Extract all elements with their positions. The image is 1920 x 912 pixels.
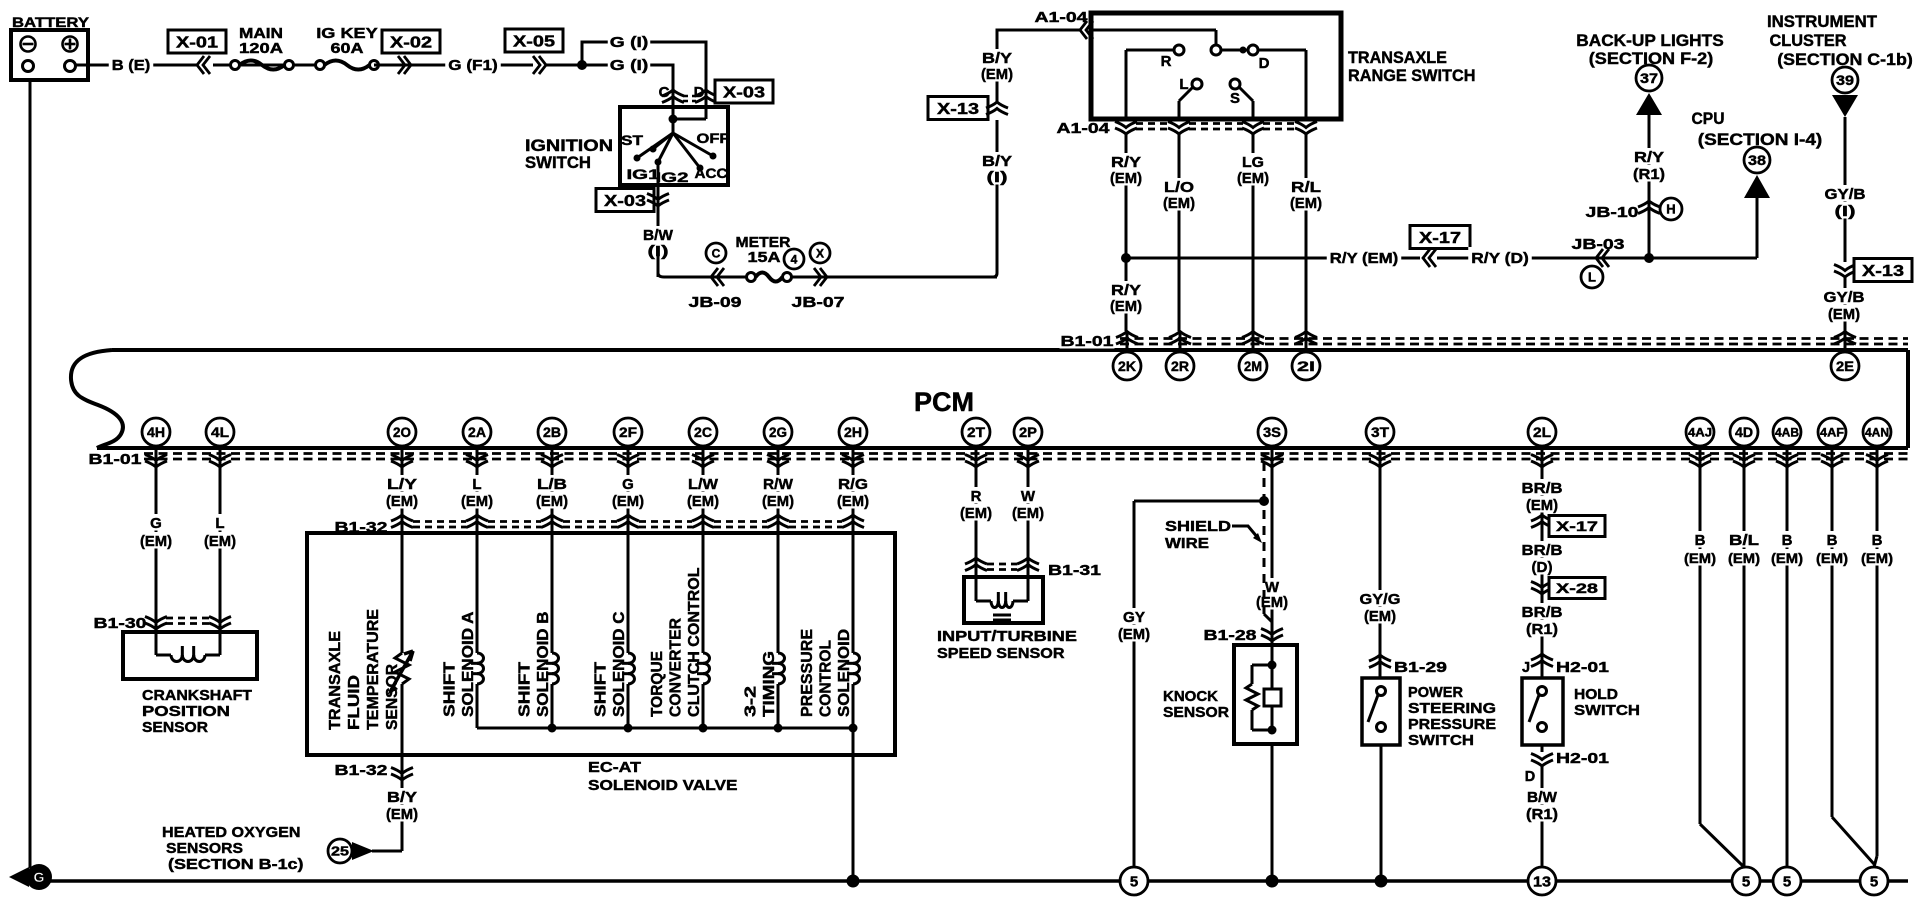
ground bus [45, 879, 1908, 883]
svg-text:B1-31: B1-31 [1048, 563, 1101, 579]
connector B1-30 [94, 616, 232, 632]
svg-text:(SECTION I-4): (SECTION I-4) [1698, 130, 1823, 149]
svg-text:(EM): (EM) [1290, 195, 1322, 212]
svg-text:CPU: CPU [1692, 109, 1725, 128]
svg-text:POSITION: POSITION [142, 703, 230, 720]
svg-text:SENSOR: SENSOR [1163, 704, 1229, 721]
svg-text:JB-09: JB-09 [689, 295, 742, 311]
svg-text:(EM): (EM) [837, 493, 869, 510]
svg-text:(I): (I) [1835, 203, 1856, 220]
svg-text:2O: 2O [393, 424, 411, 440]
svg-text:G (F1): G (F1) [448, 57, 498, 74]
PCM pin 2O [388, 418, 416, 474]
wire G (EM) PCM 4H to crankshaft sensor [139, 466, 173, 632]
svg-text:SENSOR: SENSOR [384, 664, 401, 730]
PCM pin 4H [142, 418, 170, 474]
PCM pin 2B [538, 418, 566, 474]
svg-text:4AF: 4AF [1820, 425, 1844, 439]
wire R/G (EM) to EC-AT [836, 466, 870, 533]
svg-text:2I: 2I [1297, 358, 1315, 374]
svg-text:X: X [816, 246, 824, 260]
svg-text:B1-30: B1-30 [94, 616, 147, 632]
wire B/Y (EM) to transaxle range switch connector A1-04 [980, 30, 1080, 102]
svg-text:B: B [1827, 532, 1838, 549]
svg-text:H2-01: H2-01 [1556, 751, 1609, 767]
svg-text:R/Y: R/Y [1111, 282, 1141, 299]
svg-text:BR/B: BR/B [1522, 604, 1563, 621]
svg-text:(R1): (R1) [1526, 621, 1558, 638]
svg-text:D: D [1525, 769, 1535, 785]
svg-text:(EM): (EM) [1816, 550, 1848, 566]
wire L/O (EM) from range switch L [1162, 134, 1196, 331]
PCM pin 4AB [1773, 418, 1801, 474]
svg-text:X-17: X-17 [1556, 518, 1598, 534]
PCM pin 2R [1166, 331, 1194, 380]
svg-text:SHIFT: SHIFT [442, 662, 459, 717]
junction JB-10 [1586, 198, 1683, 221]
wire R (EM) PCM 2T [959, 466, 993, 577]
wire GY/G (EM) PCM 3T [1359, 466, 1402, 678]
wire B/W (I) from ignition switch [642, 222, 674, 277]
svg-text:SHIFT: SHIFT [593, 662, 610, 717]
svg-text:B/Y: B/Y [982, 50, 1012, 67]
svg-text:(D): (D) [1532, 559, 1553, 576]
svg-text:(R1): (R1) [1633, 166, 1665, 183]
svg-text:OFF: OFF [697, 131, 730, 146]
wire R/L (EM) from range switch D [1289, 134, 1323, 331]
solenoid coil SHIFT SOLENOID B [517, 533, 559, 728]
wire L/W (EM) to EC-AT [686, 466, 720, 533]
ground G [9, 864, 52, 890]
PCM pin 4L [206, 418, 234, 474]
svg-text:(EM): (EM) [1771, 550, 1803, 566]
svg-text:PRESSURE: PRESSURE [1408, 716, 1496, 733]
svg-text:5: 5 [1870, 873, 1878, 890]
svg-text:37: 37 [1640, 70, 1658, 86]
svg-text:2L: 2L [1533, 424, 1551, 440]
svg-text:IG2: IG2 [656, 170, 689, 185]
svg-text:SHIELD: SHIELD [1165, 518, 1231, 535]
wire B (EM) PCM 4AN to ground 5 [1860, 466, 1894, 867]
back-up lights arrow and circle 37 [1576, 31, 1724, 115]
svg-text:G: G [622, 476, 634, 493]
svg-text:SOLENOID VALVE: SOLENOID VALVE [588, 777, 738, 794]
svg-text:G: G [34, 869, 45, 885]
wire B/W (R1) to ground 13 [1525, 766, 1559, 868]
svg-text:HOLD: HOLD [1574, 686, 1618, 703]
wire battery positive to X-01, label B (E) [76, 54, 197, 75]
svg-text:(EM): (EM) [1163, 195, 1195, 212]
PCM pin 4D [1730, 418, 1758, 474]
wire BR/B (EM) PCM 2L [1521, 466, 1564, 678]
PCM pin 2I [1292, 331, 1320, 380]
wire to meter fuse, junction JB-09 [658, 243, 747, 311]
PCM pin 3S [1258, 418, 1286, 474]
svg-text:SOLENOID C: SOLENOID C [611, 611, 628, 717]
svg-text:R/Y (D): R/Y (D) [1471, 250, 1529, 267]
svg-text:5: 5 [1130, 873, 1138, 890]
wire G (I) upper branch to ignition switch D [582, 32, 706, 107]
svg-text:2K: 2K [1118, 358, 1136, 374]
svg-text:CLUTCH CONTROL: CLUTCH CONTROL [686, 567, 703, 717]
wire BR/B (D) [1521, 541, 1564, 576]
connector X-28 [1531, 578, 1605, 599]
svg-text:SOLENOID B: SOLENOID B [535, 612, 552, 718]
solenoid coil TORQUE CLUTCH CONTROL [649, 533, 710, 728]
PCM pin 4AF [1818, 418, 1846, 474]
svg-text:2G: 2G [769, 424, 787, 440]
svg-text:(EM): (EM) [981, 66, 1013, 83]
svg-text:4AB: 4AB [1775, 425, 1799, 439]
svg-text:(SECTION F-2): (SECTION F-2) [1589, 49, 1714, 68]
svg-text:SOLENOID A: SOLENOID A [460, 611, 477, 717]
svg-text:METER: METER [736, 235, 792, 251]
svg-text:RANGE SWITCH: RANGE SWITCH [1348, 66, 1476, 85]
svg-text:R/G: R/G [838, 476, 868, 493]
svg-text:CRANKSHAFT: CRANKSHAFT [142, 687, 252, 704]
wire BR/B (R1) [1521, 603, 1564, 638]
svg-text:GY/B: GY/B [1825, 186, 1866, 203]
connector X-13 right [1834, 259, 1912, 282]
svg-text:JB-10: JB-10 [1586, 205, 1639, 221]
svg-text:SENSORS: SENSORS [166, 840, 243, 857]
svg-text:BATTERY: BATTERY [12, 14, 90, 30]
PCM pin 2C [689, 418, 717, 474]
svg-text:B/L: B/L [1729, 532, 1759, 549]
svg-text:13: 13 [1533, 873, 1551, 890]
svg-text:25: 25 [331, 844, 349, 859]
svg-text:L: L [215, 515, 224, 532]
svg-text:2P: 2P [1019, 424, 1037, 440]
svg-text:B1-01: B1-01 [1061, 334, 1114, 350]
solenoid coil PRESSURE SOLENOID [799, 533, 860, 728]
svg-text:X-13: X-13 [937, 101, 979, 118]
svg-text:L: L [1588, 270, 1596, 285]
svg-text:(EM): (EM) [1118, 626, 1150, 643]
solenoid coil SHIFT SOLENOID C [593, 533, 635, 728]
svg-text:(EM): (EM) [1256, 594, 1288, 611]
ground circle 5 (GY) [1120, 867, 1148, 895]
wire R/W (EM) to EC-AT [761, 466, 795, 533]
shield wire callout [1165, 518, 1262, 552]
wire L (EM) to EC-AT [460, 466, 494, 533]
svg-text:2E: 2E [1836, 358, 1854, 374]
shield drain wire GY (EM) to ground [1117, 496, 1269, 881]
wire L/B (EM) to EC-AT [535, 466, 569, 533]
fuse IG KEY 60A [316, 26, 379, 70]
svg-text:B/Y: B/Y [982, 153, 1012, 170]
wire L/Y (EM) to EC-AT [385, 466, 419, 533]
connector X-17 on R/Y wire [1410, 226, 1470, 268]
svg-text:(EM): (EM) [536, 493, 568, 510]
svg-text:PRESSURE: PRESSURE [799, 629, 816, 717]
svg-text:2F: 2F [619, 424, 637, 440]
PCM pin 2P [1014, 418, 1042, 474]
svg-text:X-01: X-01 [176, 34, 218, 51]
svg-text:KNOCK: KNOCK [1163, 688, 1218, 705]
svg-text:5: 5 [1742, 873, 1750, 890]
svg-text:A1-04: A1-04 [1057, 121, 1110, 137]
connector B1-28 [1204, 628, 1284, 644]
svg-text:B/W: B/W [643, 227, 674, 244]
svg-text:A1-04: A1-04 [1035, 10, 1088, 26]
PCM pin 2L [1528, 418, 1556, 474]
svg-text:X-28: X-28 [1556, 580, 1598, 596]
heated oxygen sensors circle 25 and arrow [162, 824, 374, 873]
svg-text:JB-03: JB-03 [1572, 237, 1625, 253]
svg-text:EC-AT: EC-AT [588, 759, 641, 776]
svg-text:X-17: X-17 [1419, 230, 1461, 247]
svg-text:(EM): (EM) [1861, 550, 1893, 566]
PCM pin 2H [839, 418, 867, 474]
knock sensor wire to ground bus [1266, 744, 1279, 888]
svg-text:WIRE: WIRE [1165, 535, 1209, 552]
svg-text:J: J [1522, 660, 1530, 676]
lower R/Y (EM) label on wire to PCM 2K [1109, 281, 1143, 315]
svg-text:CONVERTER: CONVERTER [668, 618, 685, 717]
svg-text:SENSOR: SENSOR [142, 719, 208, 736]
connector X-02 [374, 30, 444, 74]
PCM box [71, 350, 1908, 448]
svg-text:B: B [1695, 532, 1706, 549]
svg-text:D: D [1259, 55, 1270, 72]
fuse METER 15A [736, 235, 831, 282]
hold switch [1522, 678, 1640, 745]
svg-text:X-02: X-02 [390, 34, 432, 51]
wire GY/B (I) down to X-13 [1824, 117, 1867, 262]
svg-text:B: B [1872, 532, 1883, 549]
wire G (F1) [444, 54, 533, 75]
svg-text:C: C [712, 246, 721, 260]
svg-text:R/Y: R/Y [1634, 149, 1664, 166]
svg-text:L: L [472, 476, 481, 493]
svg-text:(EM): (EM) [1828, 306, 1860, 323]
svg-text:GY/B: GY/B [1824, 289, 1865, 306]
connector X-05 [505, 29, 563, 74]
svg-text:(EM): (EM) [612, 493, 644, 510]
wire to junction, node split G (I) [546, 60, 587, 70]
svg-text:4H: 4H [147, 424, 165, 440]
connector B1-01 bottom row [89, 452, 1909, 468]
svg-text:R/L: R/L [1291, 179, 1321, 196]
svg-text:B1-29: B1-29 [1394, 660, 1447, 676]
svg-text:S: S [1230, 90, 1240, 107]
svg-text:STEERING: STEERING [1408, 700, 1496, 717]
wire GY/B (EM) to PCM 2E [1823, 277, 1866, 331]
knock sensor [1163, 645, 1297, 744]
svg-text:HEATED OXYGEN: HEATED OXYGEN [162, 824, 301, 841]
svg-text:3-2: 3-2 [743, 686, 760, 717]
ground circle 13 [1528, 867, 1556, 895]
svg-text:LG: LG [1242, 154, 1264, 171]
wire B/Y (EM) to heated oxygen sensors [372, 755, 419, 851]
wire B/L (EM) PCM 4D to ground 5 [1727, 466, 1761, 869]
svg-text:(I): (I) [987, 169, 1008, 186]
svg-text:FLUID: FLUID [346, 675, 363, 730]
svg-text:INSTRUMENT: INSTRUMENT [1767, 12, 1878, 31]
svg-text:INPUT/TURBINE: INPUT/TURBINE [937, 628, 1077, 645]
svg-text:BACK-UP LIGHTS: BACK-UP LIGHTS [1576, 31, 1724, 50]
battery [11, 14, 90, 80]
svg-text:(EM): (EM) [687, 493, 719, 510]
wire R/Y (EM) from range switch R [1109, 134, 1143, 331]
svg-text:R/Y: R/Y [1111, 154, 1141, 171]
svg-text:(EM): (EM) [1110, 170, 1142, 187]
svg-text:4: 4 [791, 252, 798, 266]
svg-text:R: R [971, 488, 982, 505]
fuse MAIN 120A [213, 26, 320, 70]
svg-text:4AJ: 4AJ [1688, 425, 1712, 439]
svg-text:(EM): (EM) [960, 505, 992, 522]
shield wire (dashed) [1264, 462, 1272, 622]
power steering pressure switch [1362, 678, 1496, 749]
svg-text:2T: 2T [967, 424, 985, 440]
solenoid coil SHIFT SOLENOID A [442, 533, 484, 728]
svg-text:H2-01: H2-01 [1556, 660, 1609, 676]
wire R/Y (D) to junction JB-03 [1437, 237, 1649, 288]
svg-text:5: 5 [1783, 873, 1791, 890]
svg-text:X-03: X-03 [604, 193, 646, 210]
svg-text:(EM): (EM) [461, 493, 493, 510]
svg-text:IG KEY: IG KEY [316, 26, 378, 42]
svg-text:(SECTION B-1c): (SECTION B-1c) [168, 856, 304, 873]
svg-text:R/W: R/W [763, 476, 794, 493]
connector B1-29 [1369, 655, 1448, 676]
connector B1-32 top [334, 515, 865, 536]
wire R/Y (R1) rising to back-up lights [1632, 115, 1666, 263]
svg-text:(EM): (EM) [386, 493, 418, 510]
svg-text:GY: GY [1123, 609, 1145, 626]
svg-text:SWITCH: SWITCH [1408, 732, 1474, 749]
instrument cluster circle 39 and arrow [1767, 12, 1913, 117]
svg-text:TORQUE: TORQUE [649, 651, 666, 717]
svg-text:120A: 120A [239, 41, 284, 57]
wire R/G continuation to ground bus [847, 728, 860, 888]
svg-text:3T: 3T [1371, 424, 1389, 440]
svg-text:X-05: X-05 [513, 33, 555, 50]
svg-text:B1-28: B1-28 [1204, 628, 1257, 644]
wire G (EM) to EC-AT [611, 466, 645, 533]
svg-text:R: R [1161, 53, 1172, 70]
svg-text:(EM): (EM) [1237, 170, 1269, 187]
svg-text:ST: ST [621, 133, 644, 148]
connector X-17 on hold switch wire [1531, 515, 1605, 537]
svg-text:BR/B: BR/B [1522, 480, 1563, 497]
svg-text:POWER: POWER [1408, 684, 1463, 701]
svg-text:60A: 60A [331, 41, 365, 57]
svg-text:L: L [1179, 76, 1188, 93]
svg-text:L/O: L/O [1164, 179, 1194, 196]
svg-text:(EM): (EM) [1684, 550, 1716, 566]
PS switch wire to ground bus [1375, 745, 1388, 888]
svg-text:4L: 4L [211, 424, 229, 440]
ground circles 5 right [1732, 867, 1888, 895]
wire W (EM) PCM 2P [1011, 466, 1045, 577]
wire B/Y (I) rising to X-13 [981, 120, 1013, 277]
svg-text:3S: 3S [1263, 424, 1281, 440]
connector B1-31 [965, 558, 1101, 579]
svg-text:G (I): G (I) [610, 57, 649, 74]
svg-text:(R1): (R1) [1526, 806, 1558, 823]
wire B (EM) PCM 4AF to ground 5 [1815, 466, 1874, 864]
svg-text:38: 38 [1748, 152, 1766, 168]
connector B1-01 top row [1060, 332, 1909, 350]
svg-text:MAIN: MAIN [239, 26, 283, 42]
svg-text:2A: 2A [468, 424, 486, 440]
svg-text:GY/G: GY/G [1360, 591, 1401, 608]
connector X-03 top, pins C and D [659, 80, 773, 103]
svg-text:H: H [1666, 202, 1675, 217]
crankshaft position sensor [123, 632, 257, 736]
svg-text:L/B: L/B [537, 476, 567, 493]
svg-text:(EM): (EM) [204, 533, 236, 550]
svg-text:B1-01: B1-01 [89, 452, 142, 468]
connector B1-32 bottom [335, 763, 414, 780]
svg-text:2R: 2R [1171, 358, 1189, 374]
PCM pin 2T [962, 418, 990, 474]
svg-text:ACC: ACC [695, 166, 728, 181]
svg-text:TEMPERATURE: TEMPERATURE [365, 609, 382, 730]
connector A1-04 bottom [1057, 121, 1318, 137]
wire W (EM) PCM 3S with shield [1255, 466, 1289, 645]
svg-text:15A: 15A [748, 250, 782, 266]
connector X-01 [168, 30, 226, 74]
connector X-03 bottom [596, 185, 669, 222]
CPU arrow and circle 38 [1692, 109, 1823, 198]
wire B (EM) PCM 4AB to ground 5 [1770, 466, 1804, 869]
svg-text:X-13: X-13 [1862, 263, 1904, 280]
wire G (I) lower branch to ignition switch C [582, 55, 673, 107]
svg-text:B/W: B/W [1527, 789, 1558, 806]
EC-AT solenoid valve box [307, 533, 895, 794]
svg-text:(EM): (EM) [1110, 298, 1142, 315]
PCM pin 4AJ [1686, 418, 1714, 474]
svg-text:2C: 2C [694, 424, 712, 440]
battery negative wire to ground [29, 80, 32, 868]
svg-text:B (E): B (E) [112, 57, 151, 74]
svg-text:B/Y: B/Y [387, 789, 417, 806]
svg-text:(EM): (EM) [1012, 505, 1044, 522]
svg-text:2H: 2H [844, 424, 862, 440]
svg-text:(EM): (EM) [1364, 608, 1396, 625]
PCM pin 4AN [1863, 418, 1891, 474]
svg-text:CLUSTER: CLUSTER [1770, 31, 1847, 50]
svg-text:G: G [150, 515, 162, 532]
wire L (EM) PCM 4L to crankshaft sensor [203, 466, 237, 632]
PCM pin 3T [1366, 418, 1394, 474]
transaxle fluid temperature sensor (thermistor) [327, 533, 413, 755]
wire LG (EM) from range switch S [1236, 134, 1270, 331]
svg-text:2B: 2B [543, 424, 561, 440]
PCM pin 2K [1113, 331, 1141, 380]
connector X-13 left [928, 97, 1008, 120]
solenoid coil 3-2 TIMING [743, 533, 785, 728]
svg-text:SPEED SENSOR: SPEED SENSOR [937, 645, 1065, 662]
svg-text:4AN: 4AN [1865, 425, 1889, 439]
PCM pin 2E [1831, 331, 1859, 380]
connector H2-01 pin J [1522, 654, 1609, 676]
connector A1-04 top [1035, 10, 1094, 39]
transaxle range switch [1091, 13, 1476, 119]
svg-text:2M: 2M [1244, 358, 1262, 374]
svg-text:BR/B: BR/B [1522, 542, 1563, 559]
svg-text:4D: 4D [1735, 424, 1753, 440]
PCM pin 2M [1239, 331, 1267, 380]
input/turbine speed sensor [937, 577, 1077, 662]
PCM pin 2F [614, 418, 642, 474]
svg-text:G (I): G (I) [610, 34, 649, 51]
svg-text:R/Y (EM): R/Y (EM) [1330, 250, 1399, 267]
